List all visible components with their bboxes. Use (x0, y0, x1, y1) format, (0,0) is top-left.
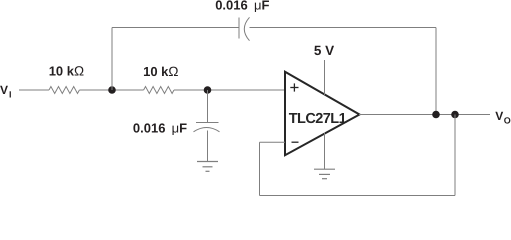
wire - input down (259, 142, 261, 195)
wire bottom feedback up to output (454, 115, 456, 196)
node C junction dot (feedback rail) (432, 111, 440, 119)
capacitor C1 0.016 uF (feedback) (239, 17, 250, 40)
capacitor C2 0.016 uF (to ground) (194, 123, 220, 132)
svg-text:0.016 μF: 0.016 μF (133, 120, 187, 135)
svg-text:O: O (504, 115, 511, 125)
svg-text:10 kΩ: 10 kΩ (49, 64, 84, 79)
op-amp - input marker (292, 141, 299, 143)
svg-text:V: V (495, 109, 503, 123)
ground (below C2) (197, 162, 218, 172)
resistor 10 kOhm (second) (144, 87, 174, 94)
wire - input stub (260, 141, 286, 143)
node B junction dot (204, 86, 212, 94)
wire 5 V supply to op-amp (324, 60, 326, 95)
wire feedback rail left of C1 (112, 27, 239, 29)
svg-text:5 V: 5 V (314, 43, 334, 58)
svg-text:I: I (9, 90, 12, 100)
wire C2 to ground (207, 131, 209, 162)
wire op-amp output to V_O (359, 114, 490, 116)
node V_O label (495, 109, 511, 125)
svg-text:V: V (0, 83, 8, 97)
wire op-amp to ground (324, 133, 326, 170)
wire feedback rail down to output (435, 28, 437, 115)
ground (op-amp) (314, 169, 335, 179)
resistor 10 kOhm (input) (49, 87, 79, 94)
node D junction dot (feedback loop) (451, 111, 459, 119)
op-amp + input marker (290, 83, 298, 91)
wire R2 to op-amp + input (174, 89, 285, 91)
op-amp U1 TLC27L1 (285, 72, 360, 156)
wire R1 to node A (79, 89, 143, 91)
wire feedback rail right of C1 (250, 27, 437, 29)
wire node B down to C2 (207, 90, 209, 122)
wire input to R1 (19, 89, 49, 91)
svg-text:0.016 μF: 0.016 μF (215, 0, 269, 12)
wire node A up to feedback rail (111, 28, 113, 91)
svg-text:TLC27L1: TLC27L1 (289, 111, 347, 127)
node V_I label (0, 83, 12, 100)
wire bottom feedback (260, 195, 456, 197)
svg-text:10 kΩ: 10 kΩ (143, 64, 178, 79)
node A junction dot (108, 86, 116, 94)
